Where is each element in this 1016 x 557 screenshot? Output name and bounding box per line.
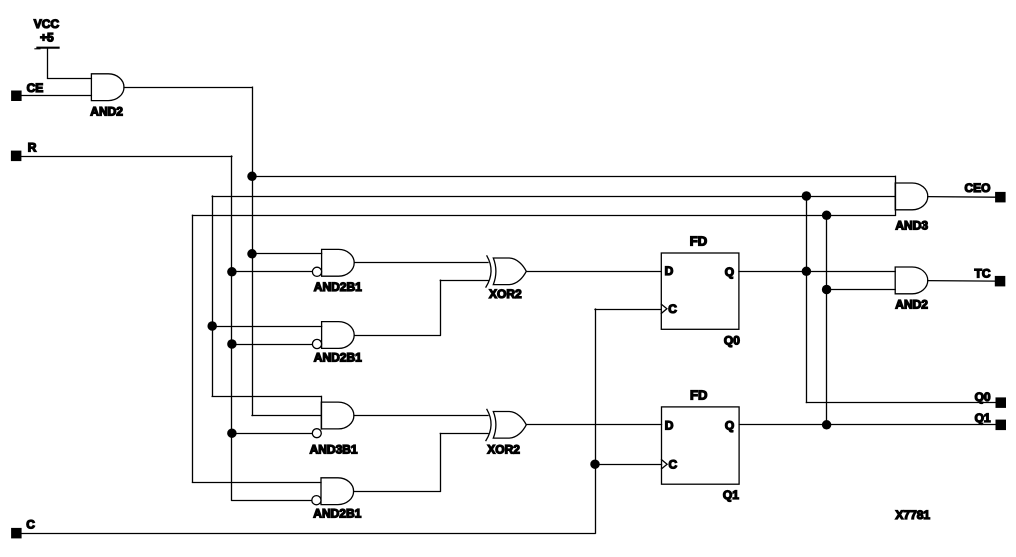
- svg-text:Q: Q: [725, 265, 734, 279]
- wire R-net to AND2B1-2 inverted input: [232, 344, 313, 346]
- wire Q0 to terminal: [806, 402, 995, 404]
- wire Q0-net vertical x=212: [212, 196, 214, 396]
- svg-text:VCC: VCC: [34, 17, 60, 31]
- flip-flop FD Q1: [662, 387, 740, 502]
- node Q1-net top right: [822, 211, 832, 221]
- input terminal C: [11, 517, 35, 538]
- svg-text:XOR2: XOR2: [489, 287, 522, 301]
- output terminal TC: [975, 267, 1006, 287]
- input bar AND3: [895, 176, 897, 215]
- label XOR2 U3: [489, 287, 522, 301]
- svg-text:AND2: AND2: [895, 297, 928, 311]
- clock triangle FD1: [661, 304, 667, 313]
- wire AND2 out to TC: [928, 280, 996, 283]
- node CE-net to AND2B1-1: [247, 249, 257, 258]
- inverter bubble AND2B1 U1: [312, 267, 321, 276]
- and-gate AND2B1 U1: [317, 248, 354, 276]
- svg-text:AND2B1: AND2B1: [314, 280, 362, 294]
- wire Q1-net to AND2B1-3 top input: [193, 482, 322, 484]
- wire Q0-net to AND3B1 top input: [212, 396, 321, 398]
- wire R horizontal: [21, 156, 232, 158]
- inverter bubble AND2B1 U2: [312, 339, 321, 348]
- svg-text:Q0: Q0: [724, 333, 740, 347]
- input terminal CE: [11, 81, 43, 101]
- inverter bubble AND2B1 U5: [312, 496, 321, 505]
- svg-text:XOR2: XOR2: [487, 442, 520, 456]
- wire CE-net to AND3 top input: [252, 176, 895, 178]
- svg-text:X7781: X7781: [895, 508, 930, 522]
- inverter bubble AND3B1: [312, 429, 321, 438]
- output terminal CEO: [965, 181, 1006, 202]
- node CE-net to AND3 line: [247, 172, 257, 182]
- svg-text:AND3: AND3: [895, 219, 928, 233]
- clock triangle FD2: [662, 460, 668, 469]
- wire FD1 Q out: [739, 271, 895, 273]
- wire AND3B1 out to XOR2-2: [354, 415, 488, 417]
- wire XOR2-2 out to FD2 D: [526, 424, 661, 426]
- wire AND2B1-3 out: [354, 491, 441, 493]
- input terminal R: [11, 141, 37, 162]
- node Q1-net at Q1 line: [822, 420, 832, 430]
- wire AND2B1-2 out vertical: [440, 280, 442, 335]
- wire Q0-net vertical x=806: [806, 196, 808, 403]
- wire vcc to AND2 top input: [48, 78, 92, 80]
- label AND2B1 U2: [314, 350, 362, 364]
- wire AND2 output to node: [124, 87, 252, 89]
- input bar AND3B1: [321, 396, 323, 429]
- label AND2B1 U1: [314, 280, 362, 294]
- svg-text:C: C: [669, 457, 678, 471]
- svg-text:D: D: [665, 418, 674, 432]
- svg-text:AND3B1: AND3B1: [310, 442, 358, 456]
- wire CE-net to AND2B1-1 top input: [252, 253, 322, 255]
- xor-gate XOR2 U3: [486, 256, 526, 287]
- wire to XOR2-1 lower input: [440, 280, 488, 282]
- svg-text:Q1: Q1: [975, 411, 991, 425]
- and-gate AND2 (TC): [895, 267, 928, 294]
- svg-text:AND2: AND2: [90, 104, 123, 118]
- wire Q0-net top horizontal: [212, 196, 895, 198]
- svg-text:TC: TC: [975, 267, 991, 281]
- wire Q1-net top horizontal: [193, 215, 896, 217]
- label AND2B1 U5: [313, 507, 361, 521]
- svg-text:C: C: [26, 517, 35, 531]
- svg-text:FD: FD: [690, 387, 707, 402]
- svg-text:D: D: [665, 264, 674, 278]
- wire CE to AND2: [22, 95, 92, 97]
- wire clock vertical x=595: [595, 309, 597, 533]
- svg-text:C: C: [668, 302, 677, 316]
- svg-text:Q0: Q0: [975, 390, 991, 404]
- svg-text:Q1: Q1: [723, 488, 739, 502]
- wire AND2B1-1 out to XOR2-1: [354, 262, 488, 264]
- svg-text:R: R: [28, 141, 37, 155]
- svg-text:Q: Q: [725, 418, 734, 432]
- svg-text:+5: +5: [40, 31, 54, 45]
- node R-net to AND3B1 bubble: [227, 428, 237, 438]
- label XOR2 U6: [487, 442, 520, 456]
- svg-text:CE: CE: [27, 81, 44, 95]
- and-gate AND3 (CEO): [895, 183, 928, 210]
- wire Q1-net to AND2-TC lower input: [827, 289, 896, 291]
- sheet label X7781: [895, 508, 930, 522]
- wire AND2B1-2 out: [354, 335, 440, 337]
- svg-text:AND2B1: AND2B1: [314, 350, 362, 364]
- label AND3B1: [310, 442, 358, 456]
- node Q1-net to AND2-TC: [822, 285, 832, 295]
- svg-text:CEO: CEO: [965, 181, 991, 195]
- wire FD2 clock stub: [595, 464, 662, 466]
- node Q0-net to AND2B1-2: [207, 321, 217, 331]
- node R-net to AND2B1-2 bubble: [227, 339, 237, 349]
- wire R-net to AND3B1 inverted input: [232, 433, 312, 435]
- wire FD2 Q out to terminal Q1: [739, 424, 995, 426]
- node Q0-net top right: [802, 191, 812, 201]
- wire Q1-net vertical x=192: [192, 215, 194, 482]
- flip-flop FD Q0: [661, 233, 740, 347]
- wire Q1-net vertical x=826: [826, 215, 828, 424]
- wire AND2B1-3 out vertical: [440, 434, 442, 492]
- svg-text:AND2B1: AND2B1: [313, 507, 361, 521]
- wire R-net to AND2B1-1 inverted input: [232, 271, 313, 273]
- label AND2 TC: [895, 297, 928, 311]
- output terminal Q1: [975, 411, 1006, 430]
- node Q0-net at FD1 Q: [802, 267, 812, 277]
- vcc power symbol: [34, 17, 60, 49]
- wire R-net to AND2B1-3 inverted input: [232, 500, 312, 502]
- output terminal Q0: [975, 390, 1006, 408]
- xor-gate XOR2 U6: [486, 409, 526, 440]
- wire C horizontal: [22, 533, 595, 535]
- svg-text:FD: FD: [690, 233, 707, 248]
- wire AND3 out to CEO: [928, 196, 996, 199]
- and-gate AND2B1 U2: [322, 322, 355, 349]
- label AND3: [895, 219, 928, 233]
- wire Q0-net to AND2B1-2 top input: [212, 326, 321, 328]
- and-gate AND2 (CE gate): [90, 74, 124, 119]
- wire to XOR2-2 lower input: [440, 433, 488, 435]
- node R-net to AND2B1-1 bubble: [227, 267, 237, 277]
- wire XOR2-1 out to FD1 D: [526, 271, 661, 273]
- and-gate AND3B1 U4: [321, 402, 354, 429]
- wire vcc stem: [47, 48, 49, 78]
- wire R-net vertical x=232: [231, 156, 233, 500]
- wire CE-net to AND3B1 middle input: [252, 415, 321, 417]
- node clock to FD2: [590, 459, 600, 469]
- and-gate AND2B1 U5: [321, 478, 354, 505]
- wire CE-net vertical x=252: [252, 87, 254, 415]
- wire FD1 clock stub: [595, 309, 661, 311]
